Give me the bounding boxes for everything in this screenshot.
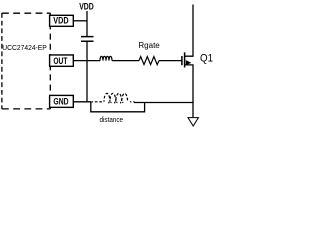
svg-text:Q1: Q1	[200, 53, 213, 65]
svg-text:UCC27424-EP: UCC27424-EP	[2, 45, 47, 52]
svg-text:Rgate: Rgate	[138, 41, 160, 50]
svg-text:OUT: OUT	[53, 56, 67, 66]
svg-text:VDD: VDD	[53, 16, 68, 26]
svg-text:VDD: VDD	[79, 0, 93, 12]
svg-text:GND: GND	[53, 96, 68, 106]
svg-text:distance: distance	[100, 117, 124, 125]
